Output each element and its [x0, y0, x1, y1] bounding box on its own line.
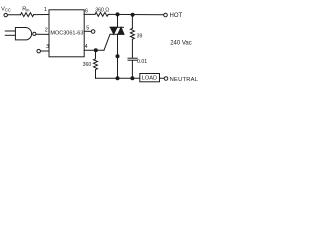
junction rail left	[116, 76, 120, 80]
svg-text:1: 1	[44, 7, 47, 13]
wire resistor to rail	[95, 70, 97, 78]
resistor Rin	[21, 13, 34, 17]
junction pin4 node	[94, 48, 98, 52]
triac Q1 triangles	[110, 27, 124, 34]
svg-text:360 Ω: 360 Ω	[95, 8, 109, 14]
junction node B	[131, 13, 135, 17]
terminal pin 3	[37, 49, 41, 53]
wire pin4 junction down	[95, 50, 97, 58]
capacitor C1 plate bottom	[128, 59, 137, 61]
svg-text:240 Vac: 240 Vac	[170, 41, 192, 47]
wire cap to rail	[131, 61, 133, 78]
NAND gate output bubble	[33, 32, 36, 35]
svg-text:LOAD: LOAD	[142, 75, 157, 81]
resistor 39 ohm	[130, 28, 134, 40]
resistor 360 ohm top	[95, 12, 108, 16]
wire 39 to cap	[131, 40, 133, 58]
svg-text:39: 39	[137, 33, 143, 39]
junction rail right	[130, 76, 134, 80]
wire pin 5	[84, 30, 91, 32]
LOAD box	[140, 74, 160, 82]
wire pin 4	[84, 49, 104, 51]
junction node A	[116, 12, 120, 16]
svg-text:6: 6	[85, 9, 88, 15]
junction MT1 mid	[116, 54, 120, 58]
wire pin 6	[84, 13, 95, 15]
svg-text:MOC3061-63: MOC3061-63	[50, 31, 83, 37]
terminal HOT	[164, 13, 168, 17]
svg-text:HOT: HOT	[170, 13, 183, 19]
resistor 360 gate	[94, 58, 98, 70]
wire node B down	[131, 15, 133, 29]
svg-text:Rin: Rin	[22, 7, 30, 13]
triac Q1 bottom bar	[110, 33, 124, 35]
wire gate diagonal	[104, 34, 110, 50]
wire bottom rail	[96, 77, 140, 79]
NAND gate U2 body	[15, 28, 31, 40]
NAND gate input wires	[5, 30, 15, 32]
terminal pin 5	[91, 30, 95, 34]
svg-text:NEUTRAL: NEUTRAL	[170, 77, 199, 83]
svg-text:VCC: VCC	[1, 6, 11, 12]
wire triac MT1 down	[117, 34, 119, 78]
svg-text:0.01: 0.01	[137, 59, 147, 65]
wire node A down to triac	[117, 14, 119, 27]
wire pin 3	[41, 50, 50, 52]
terminal NEUTRAL	[164, 77, 168, 81]
wire VCC to Rin	[8, 14, 21, 16]
terminal VCC	[4, 13, 7, 16]
IC U1 MOC3061 box	[49, 10, 84, 57]
svg-text:2: 2	[45, 27, 48, 33]
wire gate to pin 2	[36, 33, 49, 35]
wire 360 to HOT	[108, 13, 163, 15]
wire LOAD to NEUTRAL	[160, 77, 165, 79]
triac Q1 top bar	[110, 26, 124, 28]
capacitor C1 plate top	[128, 57, 137, 59]
wire Rin to pin 1	[34, 14, 49, 16]
svg-text:4: 4	[85, 44, 88, 50]
svg-text:5: 5	[86, 25, 89, 31]
svg-text:360: 360	[83, 62, 92, 68]
svg-text:3: 3	[46, 44, 49, 50]
